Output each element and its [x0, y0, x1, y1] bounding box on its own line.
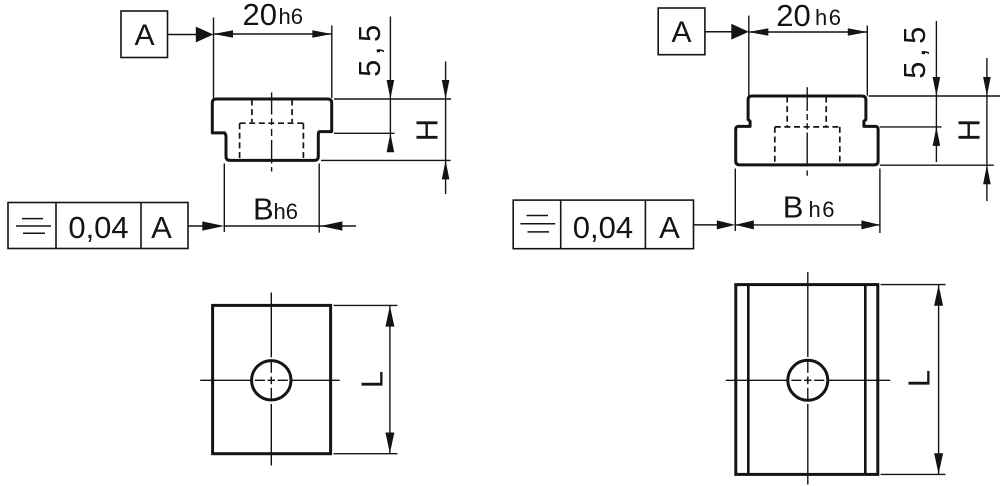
FCF leader with arrow (left): [188, 225, 206, 227]
dimension H (left): [445, 62, 447, 195]
dimension B h6 (right) dimension line: [735, 224, 880, 226]
datum leader (right): [705, 31, 732, 33]
flange edge lines (right plan): [747, 285, 750, 475]
bottom edge extension line (right): [880, 164, 994, 166]
hidden thread lines (left profile): [240, 100, 304, 160]
svg-text:20: 20: [776, 0, 810, 33]
dimension L (right) extension lines: [881, 284, 946, 286]
center cross (left plan): [268, 379, 275, 381]
step extension line (right): [880, 126, 942, 128]
top edge extension line (left): [334, 98, 451, 100]
center cross (right plan): [804, 379, 811, 381]
svg-text:A: A: [151, 210, 172, 245]
dimension 20h6 (left) extension lines: [213, 18, 215, 99]
horizontal centerline (left plan): [200, 379, 340, 381]
dimension 20h6 (right) extension lines: [748, 16, 750, 96]
plan view rectangle (left): [213, 305, 331, 453]
dimension H (right): [986, 58, 988, 201]
centerline (left profile): [271, 92, 273, 171]
feature control frame (left): [8, 203, 188, 249]
datum leader (left): [168, 34, 198, 36]
T-nut profile outline (right): [736, 96, 878, 165]
svg-text:B: B: [783, 190, 804, 225]
svg-text:0,04: 0,04: [573, 210, 633, 245]
datum triangle (left): [196, 27, 214, 43]
FCF leader with arrow (right): [694, 224, 719, 226]
plan view rectangle (right): [736, 285, 878, 475]
top edge extension line (right): [869, 95, 1000, 97]
dimension 5,5 (left): [389, 17, 391, 147]
svg-text:L: L: [902, 370, 937, 387]
datum label A (right): [658, 8, 705, 55]
hole circle (right plan): [788, 360, 828, 400]
centerline (right profile): [806, 87, 808, 176]
svg-text:H: H: [409, 119, 444, 141]
datum triangle (right): [731, 24, 749, 40]
datum label A (left): [121, 11, 168, 58]
dimension L (right) dimension line: [938, 285, 940, 475]
svg-text:A: A: [671, 16, 691, 49]
T-nut profile outline (left): [212, 99, 331, 160]
svg-text:5,5: 5,5: [897, 22, 932, 79]
dimension L (left) extension lines: [334, 304, 398, 306]
dimension 5,5 (right): [935, 21, 937, 162]
tolerance symbol (right): [520, 216, 555, 232]
svg-text:H: H: [951, 119, 986, 141]
feature control frame (right): [513, 200, 693, 249]
svg-text:B: B: [253, 192, 274, 227]
svg-text:h6: h6: [809, 197, 836, 222]
hole circle (left plan): [252, 361, 291, 400]
svg-text:h6: h6: [274, 199, 298, 224]
vertical centerline (left plan): [270, 293, 272, 466]
step extension line (left): [334, 132, 395, 134]
dimension 20h6 (left) dimension line: [214, 33, 332, 35]
bottom edge extension line (left): [321, 159, 451, 161]
svg-text:h6: h6: [815, 5, 842, 30]
svg-text:A: A: [659, 210, 680, 245]
dimension B h6 (left) extension lines: [223, 164, 225, 233]
horizontal centerline (right plan): [726, 379, 890, 381]
svg-text:5,5: 5,5: [352, 20, 387, 77]
dimension L (left) dimension line: [389, 305, 391, 453]
dimension B h6 (left) dimension line: [224, 225, 356, 227]
svg-text:L: L: [354, 371, 389, 388]
svg-text:0,04: 0,04: [68, 210, 128, 245]
hidden thread lines (right profile): [775, 97, 840, 165]
svg-text:h6: h6: [279, 4, 303, 29]
dimension 20h6 (right) dimension line: [749, 31, 868, 33]
svg-text:20: 20: [243, 0, 277, 32]
svg-text:A: A: [134, 19, 154, 52]
tolerance symbol (left): [16, 219, 51, 234]
vertical centerline (right plan): [807, 272, 809, 485]
dimension B h6 (right) extension lines: [734, 169, 736, 232]
